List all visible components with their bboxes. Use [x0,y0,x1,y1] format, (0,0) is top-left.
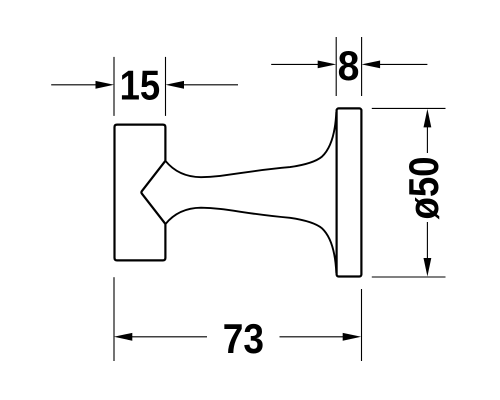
dim 15: right leader line [183,84,238,86]
dim 15: left extension line [113,57,115,116]
dim 73: right arrowhead [343,333,362,341]
dim o50: lower dimension line [426,222,428,259]
svg-text:8: 8 [338,42,360,90]
dim o50: top extension line [372,107,446,109]
dim 8: right leader line [379,63,427,65]
dim 15: right extension line [165,57,167,116]
svg-text:15: 15 [120,62,161,109]
dim 8: right arrowhead [362,61,381,69]
dim 8: right extension line [361,37,363,96]
dim 73: left arrowhead [114,333,133,341]
dim 15: right arrowhead [166,81,185,89]
dim 8: left leader line [271,63,319,65]
dim o50: bottom extension line [372,276,446,278]
stem upper profile curve [165,112,336,177]
dim 15: left arrowhead [96,81,115,89]
dim 8: left extension line [335,37,337,96]
dim 73: left extension line [113,277,115,361]
stem lower profile curve [165,208,336,273]
dim 15: left leader line [51,84,97,86]
dim 73: right leader line [280,336,345,338]
dim o50: bottom arrowhead [424,258,432,277]
wall plate outline (left, 15 mm deep) with V-notch [115,125,166,261]
knob disc (right, o50 face, 8 mm deep) [337,108,362,276]
svg-text:ø50: ø50 [401,156,448,219]
dim 73: left leader line [131,336,207,338]
svg-text:73: 73 [223,316,264,363]
dim 8: left arrowhead [318,61,337,69]
dim 73: right extension line [361,289,363,361]
dim o50: upper dimension line [426,126,428,153]
dim o50: top arrowhead [424,109,432,128]
